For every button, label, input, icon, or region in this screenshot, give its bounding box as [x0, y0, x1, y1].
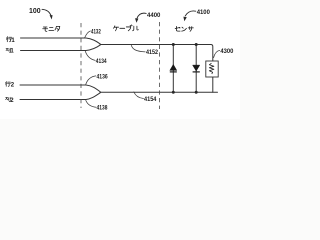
svg-text:4152: 4152	[146, 49, 158, 56]
svg-text:4132: 4132	[91, 28, 101, 35]
svg-text:4300: 4300	[220, 48, 233, 55]
svg-text:4154: 4154	[144, 96, 157, 103]
svg-text:4134: 4134	[96, 58, 107, 65]
svg-text:100: 100	[29, 8, 41, 15]
svg-text:4136: 4136	[97, 73, 109, 80]
svg-text:4100: 4100	[197, 9, 210, 16]
svg-text:4138: 4138	[97, 105, 108, 112]
svg-text:4400: 4400	[147, 12, 161, 19]
